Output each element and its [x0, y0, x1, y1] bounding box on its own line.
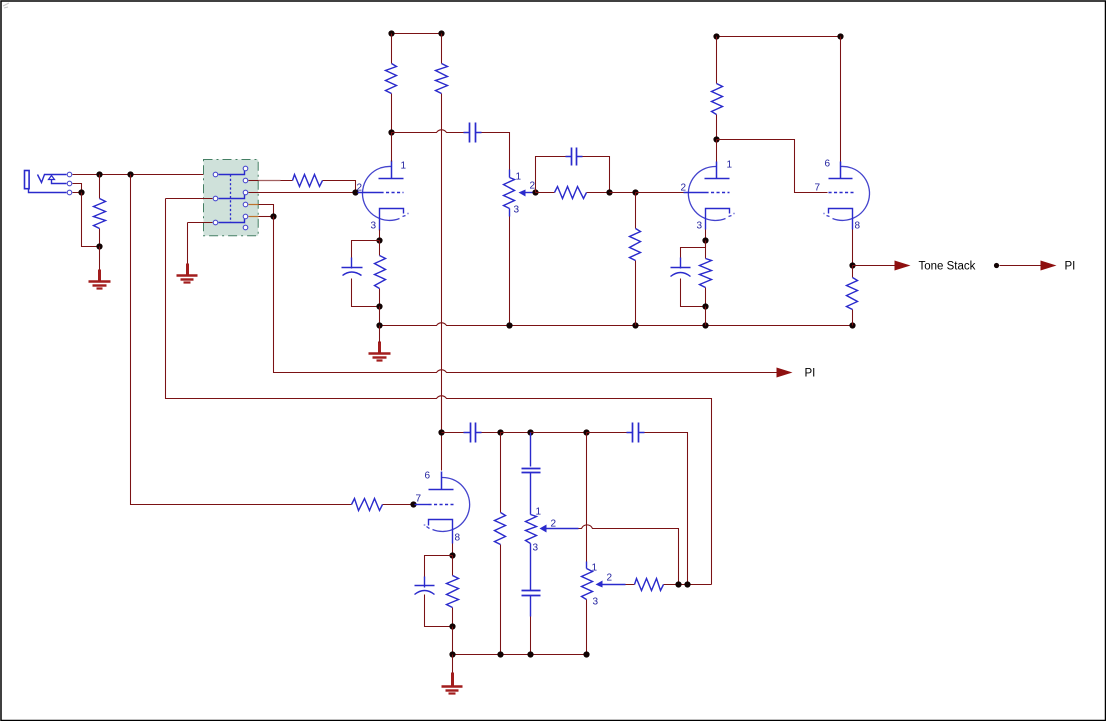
- wire: supply rail A: [392, 33, 442, 35]
- junction: [837, 33, 843, 39]
- input jack J1: [25, 171, 30, 189]
- resistor R_gs leads: [383, 504, 414, 506]
- svg-text:2: 2: [357, 183, 363, 194]
- resistor R_k2: [700, 259, 712, 288]
- resistor R_k3 leads: [452, 556, 454, 627]
- svg-text:PI: PI: [805, 368, 816, 380]
- svg-text:2: 2: [551, 519, 557, 530]
- junction: [127, 171, 133, 177]
- junction: [527, 429, 533, 435]
- node dot: [994, 263, 999, 268]
- junction: [388, 30, 394, 36]
- svg-text:3: 3: [371, 221, 377, 232]
- wire: node D to C4: [587, 432, 627, 434]
- junction: [96, 243, 102, 249]
- junction: [713, 33, 719, 39]
- junction: [376, 322, 382, 328]
- capacitor C_k2: [671, 267, 691, 269]
- junction: [388, 129, 394, 135]
- wire: node C to D: [531, 432, 587, 434]
- resistor R7: [847, 278, 858, 310]
- svg-text:1: 1: [727, 160, 733, 171]
- junction: [449, 552, 455, 558]
- wire: gnd3 stem: [379, 326, 381, 343]
- junction: [583, 429, 589, 435]
- svg-text:3: 3: [533, 543, 539, 554]
- junction: [702, 237, 708, 243]
- svg-text:8: 8: [855, 221, 861, 232]
- wire: gnd4 stem: [452, 655, 454, 673]
- wire: to ground: [99, 247, 101, 271]
- wire: plate lead V2A top: [840, 37, 842, 162]
- wire: bottom rail: [453, 627, 587, 655]
- junction: [684, 581, 690, 587]
- svg-text:PI: PI: [1065, 261, 1076, 273]
- wire: cathode V1A: [379, 230, 381, 241]
- resistor R4 leads: [716, 37, 718, 140]
- wire: pole 2 feed: [166, 198, 213, 200]
- wire: pole2 long feedback: [166, 199, 712, 585]
- junction: [96, 171, 102, 177]
- resistor R_k1 leads: [379, 241, 381, 307]
- resistor R5: [495, 513, 506, 545]
- svg-text:3: 3: [514, 205, 520, 216]
- junction: [438, 30, 444, 36]
- junction: [675, 581, 681, 587]
- switch S1 box: [204, 160, 259, 236]
- capacitor C6 lead: [530, 596, 532, 617]
- potentiometer P2: [526, 515, 537, 544]
- wire: jack ring to sleeve node: [73, 184, 82, 193]
- triode V2B: [433, 477, 470, 531]
- svg-text:2: 2: [681, 183, 687, 194]
- wire: pole1 node to bottom grid: [131, 175, 352, 505]
- ground GND4: [451, 673, 454, 687]
- switch S1 contacts: [219, 171, 245, 175]
- wire: sleeve node down to resistor bottom: [82, 193, 100, 247]
- junction: [449, 651, 455, 657]
- svg-text:7: 7: [815, 183, 821, 194]
- wire: output to tone stack arrow: [853, 265, 895, 267]
- junction: [438, 429, 444, 435]
- wire: C6 to rail: [530, 617, 532, 655]
- junction: [410, 501, 416, 507]
- junction: [849, 262, 855, 268]
- junction: [632, 322, 638, 328]
- resistor R_s leads: [281, 181, 356, 193]
- svg-text:6: 6: [425, 471, 431, 482]
- resistor R4: [712, 84, 723, 115]
- triode V1B: [688, 166, 725, 220]
- wire: plate node to coupling cap: [392, 130, 464, 133]
- junction: [527, 651, 533, 657]
- ground GND2: [186, 264, 189, 276]
- junction: [78, 189, 84, 195]
- triode V1A: [362, 166, 399, 220]
- svg-text:1: 1: [536, 507, 542, 518]
- wire: cap C_k3 bottom: [425, 595, 453, 627]
- junction: [506, 322, 512, 328]
- resistor R6: [635, 579, 664, 591]
- wire: pole 3 to ground: [188, 223, 213, 264]
- arrow: PI left: [777, 368, 793, 378]
- arrow: tone stack: [895, 261, 911, 271]
- resistor R3 leads: [536, 192, 610, 194]
- wire: throw 2 stub: [249, 180, 259, 182]
- wire: throw 5: [259, 216, 274, 218]
- wire: plate node A down: [441, 399, 443, 471]
- wire: C4 to right drop: [645, 433, 688, 585]
- resistor R_k1: [375, 256, 386, 289]
- capacitor C6: [522, 591, 541, 596]
- wire: ground rail: [380, 323, 853, 326]
- junction: [352, 189, 358, 195]
- resistor R5 leads: [500, 433, 502, 655]
- resistor R6 leads: [626, 584, 712, 586]
- svg-text:6: 6: [825, 159, 831, 170]
- resistor R_g2: [630, 229, 641, 261]
- wire: throw 3 to grid node: [249, 192, 356, 194]
- capacitor C1: [470, 123, 476, 143]
- capacitor C5 lead: [530, 433, 532, 467]
- junction: [497, 429, 503, 435]
- wire: cathode V2A to output node: [852, 230, 854, 266]
- wire: cap C2 to node: [583, 157, 610, 193]
- wire: cap C_k2 bottom: [681, 279, 706, 307]
- junction: [606, 189, 612, 195]
- wire: plate lead V1B: [716, 140, 718, 162]
- arrow: PI right: [1041, 261, 1057, 271]
- svg-text:2: 2: [607, 573, 613, 584]
- wire: to rail: [705, 307, 707, 326]
- potentiometer P1 leads: [509, 217, 511, 326]
- resistor R3: [555, 187, 587, 199]
- wire: grid node to V1B: [636, 192, 684, 194]
- wire: cathode branch left: [352, 241, 380, 259]
- resistor R1: [386, 64, 397, 94]
- triode V2A: [833, 166, 870, 220]
- wire: P2 wiper to node: [579, 525, 679, 585]
- potentiometer P3: [582, 569, 593, 600]
- svg-text:1: 1: [516, 172, 522, 183]
- junction: [713, 136, 719, 142]
- wire: switch throws to PI: [274, 217, 777, 373]
- junction: [270, 213, 276, 219]
- resistor R_k2 leads: [705, 241, 707, 307]
- resistor R2: [436, 64, 448, 94]
- svg-text:1: 1: [401, 161, 407, 172]
- svg-text:1: 1: [592, 563, 598, 574]
- resistor R_s: [293, 175, 323, 187]
- potentiometer P2 lead bottom: [530, 544, 532, 591]
- svg-text:Tone Stack: Tone Stack: [919, 261, 976, 273]
- wire: plate lead V1A: [391, 133, 393, 162]
- wire: cathode to rail: [379, 307, 381, 326]
- resistor R_g2 leads: [635, 193, 637, 326]
- junction: [376, 303, 382, 309]
- potentiometer P2 lead top: [530, 473, 532, 515]
- junction: [583, 651, 589, 657]
- junction: [702, 303, 708, 309]
- wire: wiper node up and over: [536, 157, 566, 193]
- junction: [702, 322, 708, 328]
- ground GND1: [98, 270, 101, 282]
- wire: tone stack to PI: [1000, 265, 1041, 267]
- resistor R2 leads: [441, 34, 443, 433]
- capacitor C3: [471, 423, 476, 443]
- junction: [849, 322, 855, 328]
- wire: throw 4 stub: [249, 204, 259, 206]
- wire: jack tip to switch pole 1: [73, 174, 213, 176]
- resistor R_in: [94, 199, 106, 229]
- junction: [497, 651, 503, 657]
- wire: node to grid node V1B: [610, 192, 636, 194]
- resistor R7 leads: [852, 266, 854, 326]
- wire: plate to follower grid: [717, 140, 828, 193]
- wire: cap C_k1 bottom: [352, 279, 380, 307]
- capacitor C4: [633, 423, 639, 443]
- resistor R_gs: [352, 499, 383, 511]
- capacitor C_k3: [415, 585, 435, 587]
- wire: bottom coupling line: [442, 432, 464, 434]
- wire: cathode branch left B: [681, 241, 706, 259]
- svg-text:3: 3: [697, 221, 703, 232]
- junction: [632, 189, 638, 195]
- wire: throw 4 jog: [259, 205, 274, 217]
- junction: [449, 623, 455, 629]
- ground GND3: [378, 342, 381, 354]
- wire: cathode branch left C: [425, 556, 453, 578]
- wire: cap C1 to volume pot: [482, 133, 510, 170]
- capacitor C2: [572, 148, 577, 166]
- wire: node B to C: [501, 432, 531, 434]
- potentiometer P3 lead top: [586, 433, 588, 562]
- wire: supply rail B: [717, 36, 841, 38]
- potentiometer P3 lead bottom: [586, 600, 588, 655]
- resistor R_k3: [447, 576, 459, 608]
- junction: [532, 189, 538, 195]
- resistor R_in leads: [99, 175, 101, 247]
- svg-text:8: 8: [455, 533, 461, 544]
- wire: throw 2 to grid resistor (pink): [259, 180, 281, 182]
- wire: C3 to node B: [482, 432, 501, 434]
- svg-text:3: 3: [593, 597, 599, 608]
- capacitor C5: [522, 469, 541, 473]
- resistor R1 leads: [391, 34, 393, 133]
- wire: throw 5 stub: [249, 216, 259, 218]
- wire: cathode V2B: [452, 544, 454, 556]
- wire: cathode V1B: [705, 230, 707, 241]
- potentiometer P1: [504, 178, 515, 209]
- junction: [376, 237, 382, 243]
- capacitor C_k1: [342, 267, 363, 269]
- svg-text:7: 7: [416, 494, 422, 505]
